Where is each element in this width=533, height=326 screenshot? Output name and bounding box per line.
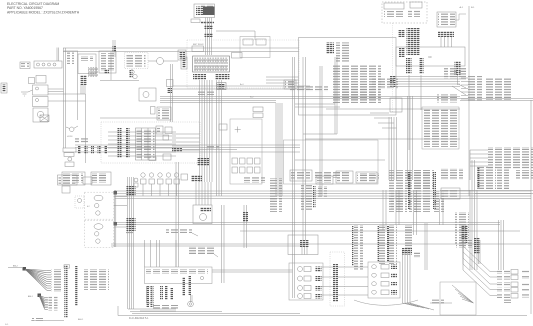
sender unit box2 xyxy=(99,51,116,73)
label rows right edge mid xyxy=(488,147,533,169)
wire vertical short pair xyxy=(334,57,336,134)
wire bundle staircase vertical xyxy=(388,117,390,180)
connector strip CN-B2 tall xyxy=(75,266,78,306)
corner box small xyxy=(149,157,156,161)
wire travel-alarm fan xyxy=(452,285,474,303)
label strip top xyxy=(92,175,108,180)
wire horizontal A-4 feed pair xyxy=(173,85,310,87)
wire long bus row2b xyxy=(240,230,520,232)
connector cluster row2 xyxy=(232,167,238,173)
wire fan to solenoid terminals xyxy=(463,246,490,272)
wire h-links left xyxy=(100,80,139,82)
connector hatch right bundle1 xyxy=(461,225,468,243)
svg-text:ICF: ICF xyxy=(428,56,432,59)
wire bundle center vertical xyxy=(292,57,294,298)
safety relay box xyxy=(33,97,49,107)
label block right of feeds xyxy=(340,86,380,101)
connector column group F xyxy=(379,225,387,264)
condenser fan dashed box2 xyxy=(84,220,113,247)
connector hatch below fuel unit xyxy=(80,75,87,85)
harness fan-out W2 xyxy=(38,294,42,298)
wire fan-to-bus links xyxy=(114,196,127,198)
wire vertical from bus xyxy=(63,48,65,148)
label boxes mid-left xyxy=(315,171,343,178)
wire vertical pair ticks xyxy=(112,40,114,57)
wire staircase steps xyxy=(370,112,389,114)
relay pair small boxes xyxy=(253,107,263,112)
relay table RB1 xyxy=(136,128,156,160)
label rows far right xyxy=(441,168,463,180)
switch panel wide box xyxy=(356,172,377,183)
wire h-link 134 xyxy=(303,133,337,135)
connector strip CN-P tall xyxy=(333,264,338,302)
dashed box around strip xyxy=(330,252,345,306)
svg-text:AM-1: AM-1 xyxy=(78,318,84,321)
connector CN-L stack xyxy=(407,28,420,55)
label fan box exit xyxy=(124,231,134,235)
switch box pair xyxy=(336,171,353,183)
horn H1 xyxy=(69,127,74,132)
aircon amp box xyxy=(83,177,92,184)
wire long h139 xyxy=(305,138,460,140)
wire relay block to bundle xyxy=(172,133,200,135)
starter motor M1 xyxy=(33,108,48,122)
junction box S1 xyxy=(288,235,318,255)
flasher unit xyxy=(163,154,171,160)
connector hatch on bundle left xyxy=(390,76,396,87)
connector ICF internal hatch xyxy=(399,48,406,57)
pump motor P4 xyxy=(298,294,303,299)
wire bundle center-right vertical xyxy=(275,103,277,196)
labels above splice bus xyxy=(75,138,90,143)
connector CN-R hatch xyxy=(438,31,454,37)
wire long h104 xyxy=(295,103,335,105)
dashed enclosure fuse/relay area xyxy=(187,40,299,88)
travel alarm box xyxy=(440,282,476,315)
wire leader lines to labels xyxy=(461,77,468,79)
wire verticals far right xyxy=(498,220,500,270)
wire tick labels on feed lines xyxy=(290,86,328,92)
fuel sender unit xyxy=(188,301,194,307)
wire vertical right spine xyxy=(468,6,470,196)
wire cab box feed right xyxy=(212,269,293,271)
svg-text:D-4 LINE REF 5-1: D-4 LINE REF 5-1 xyxy=(129,317,149,320)
pressure sensor xyxy=(134,178,138,182)
battery B1 box xyxy=(194,4,215,18)
svg-text:HORN: HORN xyxy=(67,136,73,138)
converter hatch xyxy=(172,148,182,152)
wire verticals center xyxy=(175,162,177,267)
wire starter leads xyxy=(48,88,64,90)
connector ICF stub2 xyxy=(419,58,424,74)
wire relay spine xyxy=(114,190,116,247)
wire bundle fuse-box down right xyxy=(216,80,218,196)
label rows right of feeds xyxy=(437,95,457,103)
wire diagonal gather xyxy=(354,300,418,305)
cab junction box xyxy=(145,267,213,284)
small box left of alternator xyxy=(20,62,30,69)
wire sender leads xyxy=(190,295,192,302)
connector ICF stub3 xyxy=(455,61,461,75)
lamp switch box xyxy=(157,107,171,120)
condenser fan dashed box1 xyxy=(84,192,113,219)
key switch SW1 xyxy=(217,83,226,90)
box on right bundle xyxy=(219,124,227,130)
main controller enclosure xyxy=(284,140,379,184)
legend dashed box left xyxy=(125,53,149,69)
dashed harness boundary xyxy=(392,23,394,112)
connector stack left of ICF xyxy=(398,30,405,37)
label col on valve bundle xyxy=(405,225,413,250)
ground box with X xyxy=(40,115,49,122)
coolant unit box xyxy=(139,88,156,101)
wire bundle right of ICF xyxy=(396,76,460,78)
wire bundle fan area vertical xyxy=(127,177,129,309)
pump unit enclosure xyxy=(289,263,323,300)
washer tank box xyxy=(62,172,85,185)
wire verticals left-junction xyxy=(170,64,172,122)
wire pump feed verticals xyxy=(195,182,197,205)
svg-text:APPLICABLE MODEL : ZX37SLCN ZX: APPLICABLE MODEL : ZX37SLCN ZX40EMTH xyxy=(7,10,80,14)
label stack above fan xyxy=(456,240,472,248)
relay aux box2 xyxy=(165,127,172,134)
wire drops from solenoids xyxy=(142,184,144,196)
aux small box xyxy=(181,174,188,180)
wire feed into AC box xyxy=(266,76,299,78)
wire y31 link xyxy=(216,30,255,32)
connector column group G xyxy=(455,212,469,244)
wire verticals center2 xyxy=(221,205,223,283)
wire vertical into splice xyxy=(85,94,87,163)
wire stepped top-right xyxy=(455,14,466,20)
wire hlines right mid xyxy=(440,190,533,192)
connector strip CB1 xyxy=(146,286,149,307)
connector cluster row1 xyxy=(232,158,238,164)
glow relay small component xyxy=(181,57,187,69)
wire short vertical pair xyxy=(478,240,480,264)
wire rows through junction xyxy=(108,131,176,133)
relay aux box1 xyxy=(156,126,163,134)
wire bundle right vertical xyxy=(471,160,473,270)
junction enclosure left xyxy=(230,119,262,184)
wire vertical to junction S1 xyxy=(302,57,304,240)
connector row under battery xyxy=(201,21,214,24)
label list right of bundle xyxy=(444,67,468,79)
battery relay R1 xyxy=(192,46,204,52)
marks box small xyxy=(29,78,35,84)
connector strip CB5 xyxy=(188,276,191,295)
connector CN-F2 hatched strip xyxy=(215,74,229,81)
label row below cluster xyxy=(244,176,265,183)
wire stubs to right labels xyxy=(470,149,488,151)
relay aux box3 xyxy=(163,135,169,140)
cab pressure switch box xyxy=(58,175,78,185)
component box w/ hatch xyxy=(178,50,186,60)
connector strip CB2 xyxy=(160,286,163,300)
label stacks lower xyxy=(391,191,405,198)
gauge G1 xyxy=(157,58,164,65)
solenoid valve terminal rows xyxy=(497,270,510,275)
resistor box xyxy=(62,186,70,193)
svg-text:BATT RELAY: BATT RELAY xyxy=(193,43,204,46)
valve cluster box xyxy=(368,262,400,298)
controller ICF U1 xyxy=(396,47,465,66)
wire valve bend lines xyxy=(403,303,420,307)
starter relay box xyxy=(33,85,49,95)
connector strip CB3 xyxy=(170,288,173,300)
label box bordered xyxy=(441,188,460,199)
wire splice run xyxy=(75,144,300,146)
label pointer bottom-center xyxy=(188,246,216,254)
connector column group D xyxy=(413,170,431,212)
connector strip CB4 xyxy=(182,277,185,296)
fuel pump unit box xyxy=(78,54,96,74)
wire bundle secondary vertical xyxy=(319,66,321,196)
wire long bus row1 xyxy=(115,190,531,192)
wire vertical pair x425 xyxy=(424,223,426,270)
label list bottom-left xyxy=(84,269,109,290)
wire right-edge vertical xyxy=(530,100,532,314)
wire bundle fuse-box down left xyxy=(199,80,201,182)
wire link bottom-left of fan xyxy=(430,302,452,304)
connector strip CN-C2 xyxy=(126,128,130,158)
wire verticals center3 xyxy=(243,205,245,248)
junction dashed box cab-left xyxy=(101,122,200,163)
wire horizontal key feed pair xyxy=(160,96,276,98)
connector hatch on center bundle 2 xyxy=(191,175,202,182)
wire bundle valve feed xyxy=(402,250,404,303)
wire stub leads single xyxy=(408,75,410,150)
wire bottom-left bend buses xyxy=(128,308,176,310)
wire stepped to labels xyxy=(460,78,466,80)
wiper motor box xyxy=(91,172,111,185)
solenoid units row xyxy=(141,173,145,177)
wire bottom buses xyxy=(140,310,176,312)
sender S2 xyxy=(151,107,156,115)
connector hatch right bundle2 xyxy=(474,238,480,254)
ground terminal xyxy=(21,91,28,93)
label pointer center xyxy=(166,228,192,233)
small box below-left of ICF xyxy=(390,98,402,112)
wire long bus row3 xyxy=(111,243,305,245)
wire long h160 xyxy=(295,159,385,161)
sender component cluster xyxy=(130,70,134,74)
fusible link FL1 xyxy=(232,53,243,59)
wire center cross xyxy=(235,129,241,131)
connector column group E xyxy=(354,225,363,270)
connector ICF stub1 xyxy=(406,58,412,74)
connector column group C xyxy=(389,170,407,212)
wire fuel unit drops xyxy=(80,85,82,94)
label small left of AC box xyxy=(284,80,296,89)
pump motor P3 xyxy=(298,286,303,291)
slow blow fuse label xyxy=(191,19,200,23)
wire long h109 xyxy=(326,108,460,110)
connector hatch in AC box xyxy=(326,43,334,54)
wire verticals into cab box xyxy=(144,240,146,267)
left margin connector xyxy=(1,83,7,93)
connector column group A xyxy=(301,185,312,211)
radio / tuner box xyxy=(437,12,456,27)
regulator box xyxy=(36,76,46,84)
wire pairs descending right-center xyxy=(382,190,384,230)
label table in AC box xyxy=(331,65,381,103)
fuel pump unit xyxy=(193,205,212,224)
sender outline box xyxy=(147,287,153,303)
fuse legend dashed box xyxy=(382,2,427,23)
connector column group B xyxy=(318,186,327,198)
pump motor P1 xyxy=(298,267,303,272)
pump motor P2 xyxy=(298,276,303,281)
wire radio to ICF xyxy=(440,37,442,47)
wire bundle mid-right vertical xyxy=(407,96,409,180)
connector hatch on bundle2 xyxy=(127,218,136,231)
wire link y149 xyxy=(182,149,237,151)
relay box upper xyxy=(240,37,270,58)
connector list box mid-right xyxy=(422,107,459,149)
switch box center-bottom xyxy=(316,176,333,184)
wire feed line h107 xyxy=(295,106,340,108)
connector CN-F1 hatched strip xyxy=(193,74,206,81)
bordered label box mid-left xyxy=(290,170,312,181)
connector strip CN-C1 xyxy=(118,128,122,158)
wire battery down-leads xyxy=(205,18,207,56)
dense wire labels row xyxy=(407,170,434,189)
wire rows pump to valves xyxy=(321,266,333,268)
small marks column xyxy=(167,80,174,87)
connector hatch on bundle1 xyxy=(127,186,136,196)
air-conditioner unit box xyxy=(299,38,397,116)
wire h-link y51 xyxy=(64,50,79,52)
pressure dashed sub-box xyxy=(75,196,84,208)
connector hatch on center bundle xyxy=(197,158,209,166)
label cluster in AC box xyxy=(336,43,349,63)
wire long bus row2 xyxy=(115,222,500,224)
connector strip CN-B1 tall xyxy=(64,265,67,318)
wire main bus pair top-left xyxy=(63,47,299,49)
alternator group box xyxy=(34,61,62,68)
label list left group xyxy=(372,78,398,89)
label stack left edge xyxy=(268,178,282,212)
washer pump assembly xyxy=(63,148,76,152)
fuse box FB1 xyxy=(193,56,230,72)
